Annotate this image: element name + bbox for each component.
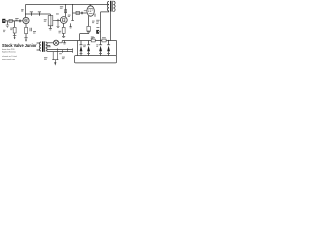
svg-text:Stock Valve Junior: Stock Valve Junior <box>2 43 37 48</box>
resistor R6 <box>62 27 65 33</box>
label top-left voltage <box>21 9 23 11</box>
transformer T1 core <box>42 41 45 51</box>
power supply box outline <box>75 56 117 63</box>
ground VR1 <box>49 29 52 30</box>
label C4 <box>84 9 87 12</box>
resistor R8 grid stopper <box>76 11 80 14</box>
ground V1B grid <box>57 26 60 27</box>
wire T1 HT lead 2 <box>47 46 50 48</box>
capacitor C8 filter <box>99 41 102 56</box>
wire heater line 2 <box>47 51 73 53</box>
wire T1 HT lead to lamp <box>47 42 54 44</box>
label C6 C7 <box>83 45 86 48</box>
wire input <box>5 20 23 22</box>
svg-text:schematic rev 1.0 stock: schematic rev 1.0 stock <box>2 55 18 58</box>
label left margin <box>3 30 5 32</box>
resistor R1 68k <box>9 19 12 22</box>
label J2 speaker <box>96 20 99 24</box>
capacitor C-k bars <box>87 32 91 33</box>
resistor R2 1M grid leak <box>14 21 16 28</box>
pentode V2 EL84 <box>87 6 94 16</box>
wire jack sleeve down <box>6 21 8 25</box>
capacitor C1 bypass <box>30 28 31 31</box>
V2 internals <box>88 8 93 13</box>
node rail junctions <box>65 4 91 5</box>
svg-text:Epiphone Electronics: Epiphone Electronics <box>2 51 17 54</box>
label VR1 1M <box>44 19 47 21</box>
capacitor input ticks <box>19 20 20 23</box>
label 6.3V <box>47 46 50 47</box>
wire V2 cathode <box>88 16 90 26</box>
wire heater taps <box>58 48 73 53</box>
transformer T1 power left winding <box>40 42 42 51</box>
label V2 screen <box>92 21 95 24</box>
label T1 primary <box>44 57 47 60</box>
label input cap <box>15 18 18 21</box>
label C2 value <box>30 11 41 12</box>
wire VR1 bottom <box>49 26 51 29</box>
wire OT secondary to jack <box>101 11 109 41</box>
ground jack <box>6 25 9 28</box>
potentiometer VR1 1M volume <box>48 16 53 26</box>
V1A internals <box>24 19 27 22</box>
node plate junction <box>25 13 26 14</box>
wire V1A cathode <box>25 24 27 28</box>
ground R2 arrow <box>13 35 16 37</box>
wire V2 screen stub <box>94 14 96 17</box>
node screen tick <box>71 20 74 22</box>
label C1/R4 <box>33 31 36 34</box>
wire B+ rail top <box>26 4 110 6</box>
wire T1 primary leads <box>37 43 39 50</box>
wire cathode return <box>80 34 89 41</box>
label F1 <box>91 37 95 38</box>
wire V1B plate riser <box>65 5 67 17</box>
capacitor line snubber <box>64 41 66 43</box>
node psu junction 2 <box>108 40 109 41</box>
wire PSU left drop <box>77 41 79 56</box>
transformer T2 core <box>110 1 112 12</box>
resistor R4 1.5k <box>25 27 28 33</box>
svg-text:www.sewatt.com: www.sewatt.com <box>2 58 15 61</box>
triode V1B circle <box>60 17 67 24</box>
label R2 1M <box>10 28 13 31</box>
wire V2 plate top <box>89 5 91 7</box>
svg-text:drawn from PCB: drawn from PCB <box>2 48 15 51</box>
capacitor C2 tick <box>31 12 33 15</box>
wire V1B cathode <box>63 23 65 27</box>
wire lamp to PSU line <box>59 41 63 43</box>
ground V1A cathode <box>24 37 27 39</box>
speaker jack J2 <box>96 30 99 34</box>
capacitor C3 bypass <box>70 23 72 26</box>
node input junction <box>13 20 14 21</box>
resistor R7 100k on riser <box>65 10 67 13</box>
label near box left <box>62 57 65 60</box>
wire V1B grid <box>55 19 60 21</box>
transformer T2 output left winding <box>108 1 109 11</box>
capacitor C9 filter <box>107 41 110 56</box>
ground V1B cathode <box>62 36 65 37</box>
transformer T1 right winding <box>46 42 48 51</box>
label near V1B top <box>68 15 71 17</box>
wiper VR1 <box>53 19 56 21</box>
transformer T2 right winding <box>113 1 115 11</box>
label V1B cathode <box>59 31 62 34</box>
wire heater line 1 <box>47 49 73 51</box>
label pot top <box>56 13 59 14</box>
resistor R10 box <box>102 39 106 42</box>
wire OT primary return <box>110 12 112 41</box>
capacitor C2b tick <box>39 12 41 15</box>
wire EL84 grid line <box>73 12 87 14</box>
wire screen riser <box>72 5 74 21</box>
wire grid leak V1B down <box>57 22 59 26</box>
capacitor grid tick <box>57 19 59 22</box>
label heater <box>59 53 62 54</box>
wire PSU B+ line <box>62 41 116 56</box>
V1B internals <box>62 19 66 22</box>
wire heater centertap drops <box>53 52 57 60</box>
fuse F1 box <box>91 39 95 42</box>
label R10 <box>102 37 106 38</box>
label V2 cathode <box>91 36 94 39</box>
ground heater centertap <box>52 59 58 61</box>
label C8 <box>96 44 98 47</box>
lamp LP1 pilot <box>54 40 59 45</box>
input jack J1 <box>2 19 5 23</box>
wire plate-to-pot signal line <box>26 13 51 15</box>
wire V1A plate riser <box>25 5 27 18</box>
capacitor C6 filter <box>80 41 83 56</box>
node psu junction 1 <box>100 40 101 41</box>
triode V1A circle <box>23 17 29 23</box>
capacitor C7 filter <box>87 41 90 56</box>
label R7 100k <box>60 6 63 9</box>
capacitor C4 coupling <box>82 12 83 15</box>
